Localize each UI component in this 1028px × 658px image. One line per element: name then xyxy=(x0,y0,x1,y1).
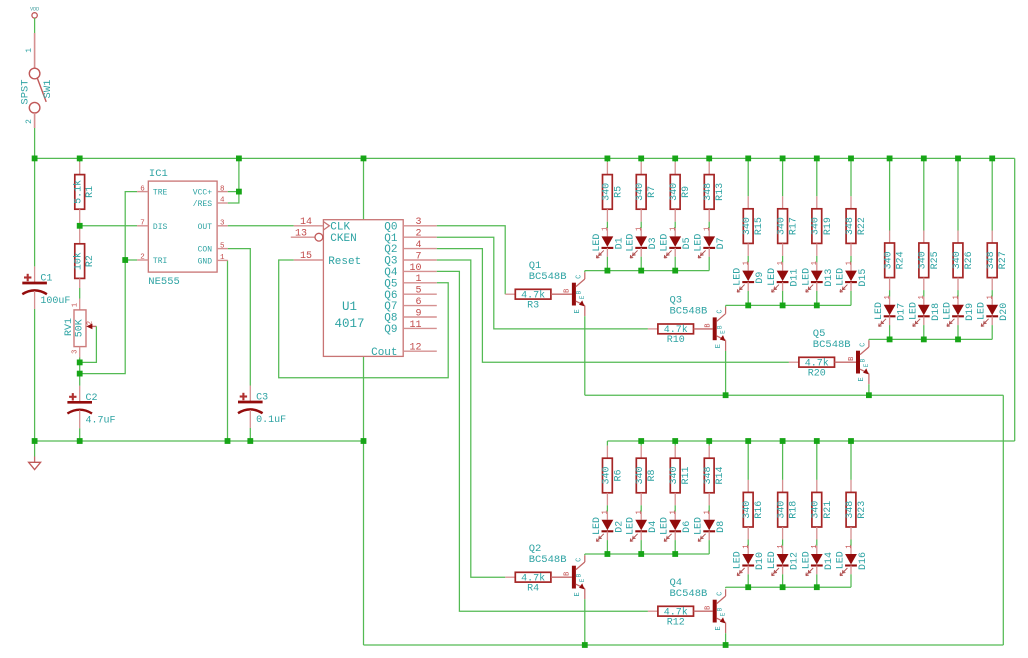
wire net VCC to R8 xyxy=(640,441,642,446)
svg-text:2: 2 xyxy=(86,321,94,325)
svg-text:R23: R23 xyxy=(857,501,868,519)
svg-text:6: 6 xyxy=(415,297,421,308)
wire D9 to cathode bus xyxy=(747,291,749,306)
resistor R12 4.7k xyxy=(648,610,658,612)
svg-text:Q5: Q5 xyxy=(384,278,397,290)
wire node A xyxy=(79,362,81,373)
svg-text:Q8: Q8 xyxy=(384,313,397,325)
wire R6 to D2 xyxy=(606,505,608,511)
svg-text:LED: LED xyxy=(592,517,603,535)
svg-text:LED: LED xyxy=(694,234,705,252)
wire net VCC to R11 xyxy=(674,441,676,446)
capacitor C2 4.7uF xyxy=(79,386,81,403)
LED D2 xyxy=(606,512,608,520)
LED D1 xyxy=(606,228,608,236)
svg-text:R13: R13 xyxy=(715,183,726,201)
wire net VCC to R6 xyxy=(606,441,608,446)
resistor R26 340 xyxy=(957,231,959,244)
wire cathode bus group 2 xyxy=(726,304,851,306)
wire C3 to ground bus xyxy=(249,428,251,441)
svg-text:C: C xyxy=(576,558,584,562)
svg-text:Q9: Q9 xyxy=(384,324,397,336)
svg-text:10: 10 xyxy=(409,263,421,274)
svg-text:SPST: SPST xyxy=(20,79,32,104)
svg-text:R11: R11 xyxy=(681,466,692,484)
svg-text:B: B xyxy=(564,572,572,576)
wire ground stub xyxy=(34,441,36,457)
svg-text:LED: LED xyxy=(626,517,637,535)
resistor R7 340 xyxy=(640,162,642,175)
svg-text:340: 340 xyxy=(635,183,646,201)
svg-text:D18: D18 xyxy=(931,303,942,321)
svg-text:Reset: Reset xyxy=(328,256,361,268)
wire net VCC to R19 xyxy=(816,158,818,196)
svg-text:348: 348 xyxy=(845,217,856,235)
wire Q5 emitter to rail xyxy=(868,384,870,395)
svg-text:LED: LED xyxy=(943,302,954,320)
svg-text:340: 340 xyxy=(742,501,753,519)
svg-text:LED: LED xyxy=(801,268,812,286)
svg-text:R5: R5 xyxy=(613,186,624,198)
svg-text:4: 4 xyxy=(220,197,225,205)
svg-text:1: 1 xyxy=(25,48,34,53)
wire cathode bus group 5 xyxy=(726,586,851,588)
svg-text:4: 4 xyxy=(415,240,421,251)
transistor Q3 BC548B xyxy=(713,317,717,340)
wire Q3 output to R4 xyxy=(437,260,506,577)
wire SW1 pin 2 to VCC bus xyxy=(34,128,36,158)
svg-text:1: 1 xyxy=(670,227,678,231)
svg-text:100uF: 100uF xyxy=(40,296,70,307)
counter U1 4017 xyxy=(323,220,403,357)
wire net VCC to R9 xyxy=(674,158,676,162)
svg-text:C3: C3 xyxy=(256,393,268,404)
wire R25 to D18 xyxy=(923,290,925,297)
svg-text:3: 3 xyxy=(220,220,225,228)
wire D8 to cathode bus xyxy=(708,540,710,554)
svg-text:D15: D15 xyxy=(858,269,869,287)
wire net VCC to R15 xyxy=(747,158,749,196)
svg-text:348: 348 xyxy=(703,183,714,201)
wire GND riser of IC1 xyxy=(227,260,229,441)
wire R23 to D16 xyxy=(850,540,852,546)
svg-text:C: C xyxy=(716,309,724,313)
svg-text:BC548B: BC548B xyxy=(813,339,851,351)
svg-text:348: 348 xyxy=(845,501,856,519)
resistor R23 348 xyxy=(850,480,852,493)
svg-text:1: 1 xyxy=(952,295,960,299)
wire R15 to D9 xyxy=(747,256,749,263)
svg-text:0.1uF: 0.1uF xyxy=(256,415,286,426)
wire Q4 output to R12 xyxy=(437,271,648,611)
capacitor C3 0.1uF xyxy=(249,386,251,403)
svg-text:4.7uF: 4.7uF xyxy=(86,415,116,426)
svg-text:340: 340 xyxy=(777,217,788,235)
svg-text:LED: LED xyxy=(733,551,744,569)
svg-text:D6: D6 xyxy=(682,521,693,533)
wire node to C2 xyxy=(79,374,81,386)
wire C1 to ground bus xyxy=(34,309,36,441)
svg-text:E: E xyxy=(579,578,586,582)
transistor Q4 BC548B xyxy=(713,600,717,623)
wire R2 to RV1 xyxy=(79,288,81,299)
svg-text:12: 12 xyxy=(409,343,421,354)
svg-text:1: 1 xyxy=(670,510,678,514)
resistor R15 340 xyxy=(747,196,749,209)
wire R22 to D15 xyxy=(850,256,852,263)
wire D1 to cathode bus xyxy=(606,257,608,271)
svg-text:Q4: Q4 xyxy=(384,267,398,279)
power VDD supply symbol xyxy=(32,13,37,18)
wire net VCC to R14 xyxy=(708,441,710,446)
svg-text:340: 340 xyxy=(669,183,680,201)
svg-text:1: 1 xyxy=(704,510,712,514)
svg-text:1: 1 xyxy=(811,544,819,548)
svg-text:NE555: NE555 xyxy=(148,276,180,288)
svg-text:Cout: Cout xyxy=(371,347,397,359)
wire TRE link xyxy=(125,192,137,260)
wire D17 to cathode bus xyxy=(889,325,891,339)
LED D13 xyxy=(816,262,818,270)
svg-text:E: E xyxy=(720,612,727,616)
wire TRI link xyxy=(125,259,137,261)
svg-text:1: 1 xyxy=(884,295,892,299)
svg-text:C: C xyxy=(860,343,868,347)
wire net VCC to R5 xyxy=(606,158,608,162)
svg-text:R12: R12 xyxy=(667,617,685,628)
svg-text:Q1: Q1 xyxy=(384,233,398,245)
svg-text:R1: R1 xyxy=(85,186,96,198)
wire TRI-TRE vertical to RV1 node xyxy=(80,260,126,374)
svg-text:340: 340 xyxy=(811,217,822,235)
svg-text:1: 1 xyxy=(636,510,644,514)
svg-text:1: 1 xyxy=(777,544,785,548)
wire R26 to D19 xyxy=(957,290,959,297)
svg-text:E: E xyxy=(715,344,723,348)
svg-text:LED: LED xyxy=(733,268,744,286)
svg-text:3: 3 xyxy=(72,350,80,354)
ground symbol xyxy=(34,457,36,463)
wire R11 to D6 xyxy=(674,505,676,511)
svg-text:340: 340 xyxy=(601,183,612,201)
wire VCC riser to IC1 xyxy=(238,158,240,191)
svg-text:Q3: Q3 xyxy=(384,256,397,268)
svg-text:LED: LED xyxy=(836,268,847,286)
wire R21 to D14 xyxy=(816,540,818,546)
svg-text:B: B xyxy=(705,323,713,327)
wire D10 to cathode bus xyxy=(747,574,749,587)
wire R24 to D17 xyxy=(889,290,891,297)
svg-text:6: 6 xyxy=(140,185,145,193)
svg-text:D14: D14 xyxy=(824,552,835,570)
svg-text:1: 1 xyxy=(918,295,926,299)
svg-text:1: 1 xyxy=(743,261,751,265)
wire Reset loop from Q5 output xyxy=(279,260,449,378)
resistor R2 10k xyxy=(79,226,81,244)
svg-text:B: B xyxy=(848,357,856,361)
svg-text:D20: D20 xyxy=(999,303,1010,321)
svg-text:LED: LED xyxy=(592,234,603,252)
svg-text:R3: R3 xyxy=(527,300,539,311)
svg-text:D3: D3 xyxy=(648,237,659,249)
wire net VCC to R7 xyxy=(640,158,642,162)
svg-text:B: B xyxy=(716,607,723,611)
svg-text:10k: 10k xyxy=(73,252,85,270)
svg-text:Q2: Q2 xyxy=(384,244,397,256)
wire VCC right drop xyxy=(1014,158,1016,441)
svg-text:5.1k: 5.1k xyxy=(73,180,85,204)
wire Q3 collector riser xyxy=(725,305,727,307)
LED D6 xyxy=(674,512,676,520)
svg-text:TRE: TRE xyxy=(153,189,168,198)
svg-text:50K: 50K xyxy=(74,319,85,337)
svg-text:D4: D4 xyxy=(648,521,659,533)
svg-text:340: 340 xyxy=(918,251,929,269)
svg-text:D5: D5 xyxy=(682,237,693,249)
svg-text:9: 9 xyxy=(415,308,421,319)
svg-text:5: 5 xyxy=(220,242,225,250)
LED D16 xyxy=(850,546,852,554)
switch SW1 SPST xyxy=(34,33,36,68)
capacitor C1 100uF xyxy=(34,267,36,284)
svg-text:R6: R6 xyxy=(613,469,624,481)
svg-text:R9: R9 xyxy=(681,186,692,198)
svg-text:340: 340 xyxy=(635,466,646,484)
svg-text:E: E xyxy=(574,309,582,313)
svg-text:2: 2 xyxy=(415,229,421,240)
wire D12 to cathode bus xyxy=(782,574,784,587)
wire D6 to cathode bus xyxy=(674,540,676,554)
svg-text:340: 340 xyxy=(811,501,822,519)
svg-text:R26: R26 xyxy=(964,251,975,269)
svg-text:LED: LED xyxy=(836,551,847,569)
wire CON to C3 xyxy=(228,249,251,386)
resistor R5 340 xyxy=(606,162,608,175)
svg-text:13: 13 xyxy=(295,228,307,239)
wire R8 to D4 xyxy=(640,505,642,511)
wire lower VCC bus xyxy=(607,440,1014,442)
svg-text:R2: R2 xyxy=(85,255,96,267)
wire D4 to cathode bus xyxy=(640,540,642,554)
wire D16 to cathode bus xyxy=(850,574,852,587)
wire Q4 collector riser xyxy=(725,587,727,588)
svg-text:D9: D9 xyxy=(755,272,766,284)
svg-text:E: E xyxy=(715,626,723,630)
svg-text:1: 1 xyxy=(987,295,995,299)
svg-text:D1: D1 xyxy=(614,237,625,249)
wire R19 to D13 xyxy=(816,256,818,263)
resistor R3 4.7k xyxy=(505,293,515,295)
svg-text:DIS: DIS xyxy=(153,223,168,232)
svg-text:340: 340 xyxy=(952,251,963,269)
transistor Q2 BC548B xyxy=(572,566,576,589)
svg-text:1: 1 xyxy=(704,227,712,231)
wire bottom rail xyxy=(364,644,1004,646)
svg-text:B: B xyxy=(576,573,583,577)
svg-text:1: 1 xyxy=(602,510,610,514)
svg-text:LED: LED xyxy=(977,302,988,320)
svg-text:CKEN: CKEN xyxy=(330,233,356,245)
svg-text:R25: R25 xyxy=(930,251,941,269)
wire R18 to D12 xyxy=(782,540,784,546)
svg-text:C2: C2 xyxy=(86,393,98,404)
LED D10 xyxy=(747,546,749,554)
svg-text:C1: C1 xyxy=(40,274,52,285)
svg-text:B: B xyxy=(860,358,867,362)
wire D14 to cathode bus xyxy=(816,574,818,587)
resistor R27 348 xyxy=(991,231,993,244)
svg-text:LED: LED xyxy=(660,234,671,252)
op-amp timer IC1 NE555 xyxy=(148,181,217,272)
resistor R24 340 xyxy=(889,231,891,244)
svg-text:E: E xyxy=(858,377,866,381)
wire U1 to ground junction xyxy=(363,356,365,441)
svg-text:1: 1 xyxy=(845,544,853,548)
wire Q2 emitter to bottom rail xyxy=(584,599,586,645)
wire net VCC to R18 xyxy=(782,441,784,480)
svg-text:B: B xyxy=(705,606,713,610)
svg-text:D12: D12 xyxy=(790,552,801,570)
svg-text:D8: D8 xyxy=(716,521,727,533)
svg-text:R24: R24 xyxy=(896,251,907,269)
svg-text:340: 340 xyxy=(601,466,612,484)
wire Q1 emitter to rail xyxy=(584,316,586,395)
wire cathode bus group 3 xyxy=(869,338,992,340)
svg-text:14: 14 xyxy=(300,217,312,228)
wire VDD to SW1 pin 1 xyxy=(34,18,36,33)
wire R14 to D8 xyxy=(708,505,710,511)
LED D8 xyxy=(708,512,710,520)
svg-text:2: 2 xyxy=(25,119,34,124)
svg-text:R15: R15 xyxy=(754,217,765,235)
svg-text:R22: R22 xyxy=(857,217,868,235)
svg-text:VCC+: VCC+ xyxy=(193,189,212,198)
wire ground junction to bottom rail xyxy=(363,441,365,645)
wire RV1 pin3 to node xyxy=(79,358,81,363)
svg-text:340: 340 xyxy=(777,501,788,519)
wire D3 to cathode bus xyxy=(640,257,642,271)
wire net VCC to R17 xyxy=(782,158,784,196)
wire D7 to cathode bus xyxy=(708,257,710,271)
svg-text:LED: LED xyxy=(767,551,778,569)
svg-text:1: 1 xyxy=(602,227,610,231)
svg-text:D16: D16 xyxy=(858,552,869,570)
svg-text:BC548B: BC548B xyxy=(670,588,708,600)
svg-text:LED: LED xyxy=(694,517,705,535)
wire ground bus xyxy=(35,440,364,442)
wire R17 to D11 xyxy=(782,256,784,263)
resistor R11 340 xyxy=(674,446,676,459)
svg-text:R20: R20 xyxy=(808,368,826,379)
wire OUT to CLK xyxy=(228,225,294,227)
svg-text:LED: LED xyxy=(626,234,637,252)
svg-text:LED: LED xyxy=(874,302,885,320)
wire emitter rail right drop xyxy=(1002,395,1004,645)
wire net VCC to R25 xyxy=(923,158,925,230)
svg-text:2: 2 xyxy=(140,254,145,262)
wire net VCC to R22 xyxy=(850,158,852,196)
svg-text:Q7: Q7 xyxy=(384,301,397,313)
resistor R19 340 xyxy=(816,196,818,209)
wire D15 to cathode bus xyxy=(850,291,852,306)
svg-text:D11: D11 xyxy=(790,269,801,287)
svg-text:4017: 4017 xyxy=(334,317,364,331)
wire D19 to cathode bus xyxy=(957,325,959,339)
svg-text:15: 15 xyxy=(300,251,312,262)
wire Q5 collector riser xyxy=(868,338,870,341)
svg-text:LED: LED xyxy=(801,551,812,569)
svg-text:1: 1 xyxy=(220,254,225,262)
svg-text:VDD: VDD xyxy=(30,7,39,13)
svg-text:R10: R10 xyxy=(667,335,685,346)
svg-text:IC1: IC1 xyxy=(149,168,168,180)
wire left rail (VCC bus to C1) xyxy=(34,158,36,266)
svg-text:B: B xyxy=(564,289,572,293)
svg-text:CLK: CLK xyxy=(330,222,350,234)
svg-text:LED: LED xyxy=(908,302,919,320)
svg-text:E: E xyxy=(720,330,727,334)
svg-text:348: 348 xyxy=(986,251,997,269)
svg-text:1: 1 xyxy=(777,261,785,265)
LED D14 xyxy=(816,546,818,554)
transistor Q5 BC548B xyxy=(856,351,860,374)
wire D18 to cathode bus xyxy=(923,325,925,339)
potentiometer RV1 50K xyxy=(79,299,81,310)
wire /RES jog xyxy=(228,192,239,203)
wire R5 to D1 xyxy=(606,222,608,229)
wire RV1 wiper to node xyxy=(80,326,97,362)
svg-text:D19: D19 xyxy=(965,303,976,321)
svg-text:B: B xyxy=(716,325,723,329)
svg-text:R18: R18 xyxy=(789,501,800,519)
LED D7 xyxy=(708,228,710,236)
svg-text:BC548B: BC548B xyxy=(529,271,567,283)
svg-text:1: 1 xyxy=(811,261,819,265)
svg-text:348: 348 xyxy=(703,466,714,484)
resistor R14 348 xyxy=(708,446,710,459)
resistor R8 340 xyxy=(640,446,642,459)
wire Q2 collector riser xyxy=(584,554,586,555)
wire Q3 emitter to rail xyxy=(725,351,727,395)
svg-text:D10: D10 xyxy=(755,552,766,570)
resistor R21 340 xyxy=(816,480,818,493)
svg-text:R27: R27 xyxy=(998,251,1009,269)
wire VCC+ stub xyxy=(228,191,239,193)
wire C2 to ground bus xyxy=(79,428,81,441)
wire R27 to D20 xyxy=(991,290,993,297)
svg-text:D7: D7 xyxy=(716,237,727,249)
wire D20 to cathode bus xyxy=(991,325,993,339)
resistor R1 5.1k xyxy=(79,158,81,162)
LED D15 xyxy=(850,262,852,270)
wire R9 to D5 xyxy=(674,222,676,229)
svg-text:R8: R8 xyxy=(647,469,658,481)
wire Q1 output to R10 xyxy=(437,237,648,329)
svg-text:R17: R17 xyxy=(789,217,800,235)
svg-text:R21: R21 xyxy=(823,501,834,519)
svg-text:E: E xyxy=(574,592,582,596)
svg-text:1: 1 xyxy=(845,261,853,265)
resistor R6 340 xyxy=(606,446,608,459)
svg-text:OUT: OUT xyxy=(198,223,213,232)
junction dots xyxy=(32,156,38,162)
wire R7 to D3 xyxy=(640,222,642,229)
svg-text:R19: R19 xyxy=(823,217,834,235)
resistor R9 340 xyxy=(674,162,676,175)
wire D13 to cathode bus xyxy=(816,291,818,306)
svg-text:/RES: /RES xyxy=(193,200,212,209)
svg-text:1: 1 xyxy=(636,227,644,231)
